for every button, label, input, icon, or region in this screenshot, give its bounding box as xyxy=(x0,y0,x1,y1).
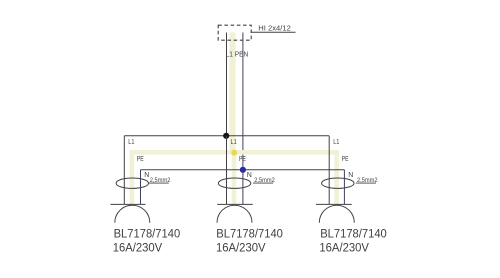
svg-text:16A/230V: 16A/230V xyxy=(216,241,266,255)
label 2,5mm2 with underline, right branch xyxy=(356,177,378,184)
svg-text:16A/230V: 16A/230V xyxy=(319,241,369,255)
label L1, left branch xyxy=(128,139,134,146)
wire L1 drop, left outlet xyxy=(123,136,125,205)
svg-text:PE: PE xyxy=(239,156,246,163)
wire PE drop (pale green-yellow), right outlet xyxy=(334,150,339,204)
label 2,5mm2 with underline, left branch xyxy=(149,177,171,184)
cable marker ellipse, middle branch xyxy=(218,178,250,188)
svg-text:L1: L1 xyxy=(231,139,237,146)
socket outlet symbol, middle xyxy=(217,204,253,222)
wire L1 drop from box xyxy=(226,33,228,136)
label BL7178/7140, left outlet xyxy=(114,226,181,240)
label BL7178/7140, middle outlet xyxy=(216,226,283,240)
label 16A/230V, middle outlet xyxy=(216,241,266,255)
svg-text:16A/230V: 16A/230V xyxy=(113,241,163,255)
wire PE drop (pale green-yellow), middle outlet xyxy=(232,150,237,204)
svg-text:N: N xyxy=(348,172,353,179)
feeder label H1 2x4/12 xyxy=(258,26,291,33)
wire L1 drop, middle outlet xyxy=(226,136,228,205)
label L1, right branch xyxy=(333,139,339,146)
label 16A/230V, right outlet xyxy=(319,241,369,255)
socket outlet symbol, left xyxy=(110,204,149,222)
wire N drop (blue), left outlet xyxy=(140,170,142,205)
cable marker ellipse, right branch xyxy=(322,178,354,188)
node L1 junction (black dot) xyxy=(223,133,229,139)
node N junction (blue dot) xyxy=(240,167,246,173)
svg-text:N: N xyxy=(247,172,252,179)
label N, left branch xyxy=(144,172,149,179)
svg-text:L1: L1 xyxy=(128,139,134,146)
wire N drop (blue), middle outlet xyxy=(242,170,244,205)
bus wire PE (horizontal, pale green-yellow) xyxy=(132,150,337,155)
label L1 PEN xyxy=(226,50,249,59)
svg-text:BL7178/7140: BL7178/7140 xyxy=(320,226,387,240)
svg-text:BL7178/7140: BL7178/7140 xyxy=(114,226,181,240)
wire PE drop (pale green-yellow), left outlet xyxy=(130,150,135,204)
feeder leader line xyxy=(251,31,295,33)
label N, middle branch xyxy=(247,172,252,179)
svg-text:PE: PE xyxy=(342,156,349,163)
junction box (dashed distribution box) xyxy=(218,25,251,40)
wire L1 drop, right outlet xyxy=(328,136,330,205)
bus wire N (horizontal, blue) xyxy=(141,169,345,171)
svg-text:HI 2x4/12: HI 2x4/12 xyxy=(258,26,291,33)
socket outlet symbol, right xyxy=(316,204,354,222)
bus wire L1 (horizontal) xyxy=(124,135,329,137)
cable marker ellipse, left branch xyxy=(116,178,148,188)
wire N drop (blue), right outlet xyxy=(343,170,345,205)
node PE junction (yellow dot) xyxy=(231,150,237,156)
label BL7178/7140, right outlet xyxy=(320,226,387,240)
wire PE drop (pale green-yellow) from supply box xyxy=(230,33,236,153)
wire PEN drop from box xyxy=(242,33,244,170)
label L1, middle branch xyxy=(231,139,237,146)
label 2,5mm2 with underline, middle branch xyxy=(253,177,275,184)
svg-text:N: N xyxy=(144,172,149,179)
label PE, middle branch xyxy=(239,156,246,163)
label N, right branch xyxy=(348,172,353,179)
label PE, right branch xyxy=(342,156,349,163)
label PE, left branch xyxy=(137,156,144,163)
label 16A/230V, left outlet xyxy=(113,241,163,255)
svg-text:PE: PE xyxy=(137,156,144,163)
svg-text:BL7178/7140: BL7178/7140 xyxy=(216,226,283,240)
svg-text:L1 PEN: L1 PEN xyxy=(226,50,249,59)
svg-text:L1: L1 xyxy=(333,139,339,146)
